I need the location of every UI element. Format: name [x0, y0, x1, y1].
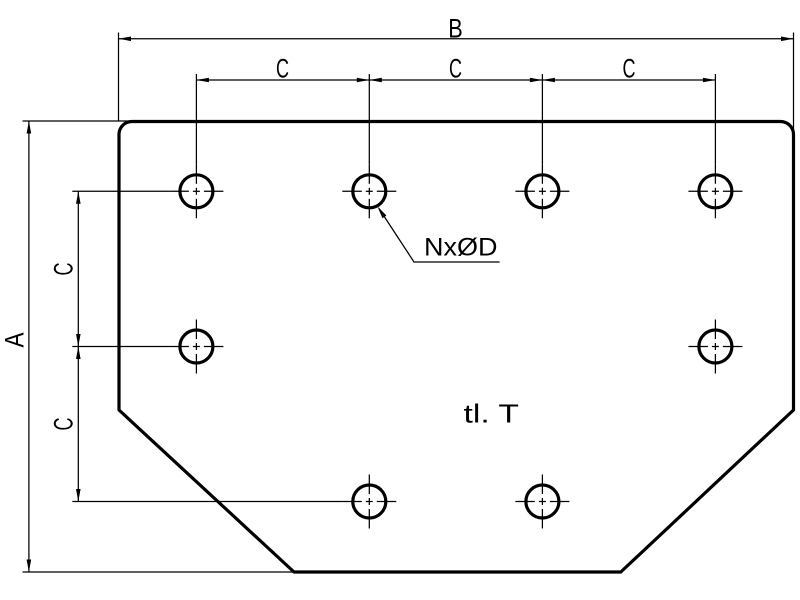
extension line C left at row1: [72, 190, 169, 192]
svg-text:B: B: [448, 14, 463, 44]
centerlines group: [169, 164, 742, 528]
arrow C4 top: [76, 191, 81, 204]
svg-text:A: A: [0, 333, 29, 348]
extension line A bottom: [23, 571, 295, 573]
centerline H7: [342, 475, 396, 529]
extension line C left at row2: [72, 346, 169, 348]
leader line NxOD: [379, 209, 500, 263]
extension line C top at H4: [714, 74, 716, 164]
arrow C5 top: [76, 347, 81, 360]
arrow C3 left: [542, 78, 555, 83]
svg-text:C: C: [48, 418, 78, 431]
hole H1 top-left circle: [180, 175, 213, 208]
extension line C top at H2: [368, 74, 370, 164]
hole H8 bottom-right circle: [526, 485, 559, 518]
extension line C left at row3: [72, 501, 342, 503]
hole H2 circle: [353, 175, 386, 208]
hole H6 mid-right circle: [699, 330, 732, 363]
plate outline: [119, 122, 794, 573]
arrow C3 right: [703, 78, 716, 83]
dimension line B: [119, 38, 794, 40]
svg-text:C: C: [48, 263, 78, 276]
arrow C2 right: [530, 78, 543, 83]
svg-text:C: C: [276, 54, 289, 84]
arrow A top: [27, 121, 32, 134]
centerline H3: [515, 164, 569, 218]
arrow C1 left: [196, 78, 209, 83]
extension line A top: [23, 120, 136, 122]
arrow C2 left: [369, 78, 382, 83]
arrow B left: [119, 37, 132, 42]
svg-text:tl. T: tl. T: [464, 399, 520, 429]
hole H5 mid-left circle: [180, 330, 213, 363]
arrow C4 bottom: [76, 334, 81, 347]
hole H7 bottom-left circle: [353, 485, 386, 518]
hole H3 circle: [526, 175, 559, 208]
leader arrowhead: [378, 207, 387, 219]
centerline H8: [515, 475, 569, 529]
centerline H6: [688, 320, 742, 374]
hole H4 top-right circle: [699, 175, 732, 208]
centerline H5: [169, 320, 223, 374]
centerline H1: [169, 164, 223, 218]
svg-text:C: C: [623, 54, 636, 84]
arrow A bottom: [27, 560, 32, 573]
extension line C top at H1: [195, 74, 197, 164]
svg-text:NxØD: NxØD: [424, 234, 498, 262]
arrow B right: [781, 37, 794, 42]
extension line B right: [793, 33, 795, 135]
arrow C5 bottom: [76, 489, 81, 502]
svg-text:C: C: [449, 54, 462, 84]
extension line C top at H3: [541, 74, 543, 164]
centerline H4: [688, 164, 742, 218]
centerline H2: [342, 164, 396, 218]
extension line B left: [118, 33, 120, 122]
arrow C1 right: [357, 78, 370, 83]
dimension line C left: [77, 191, 79, 501]
dimension line C top: [196, 79, 715, 81]
dimension line A: [28, 121, 30, 572]
